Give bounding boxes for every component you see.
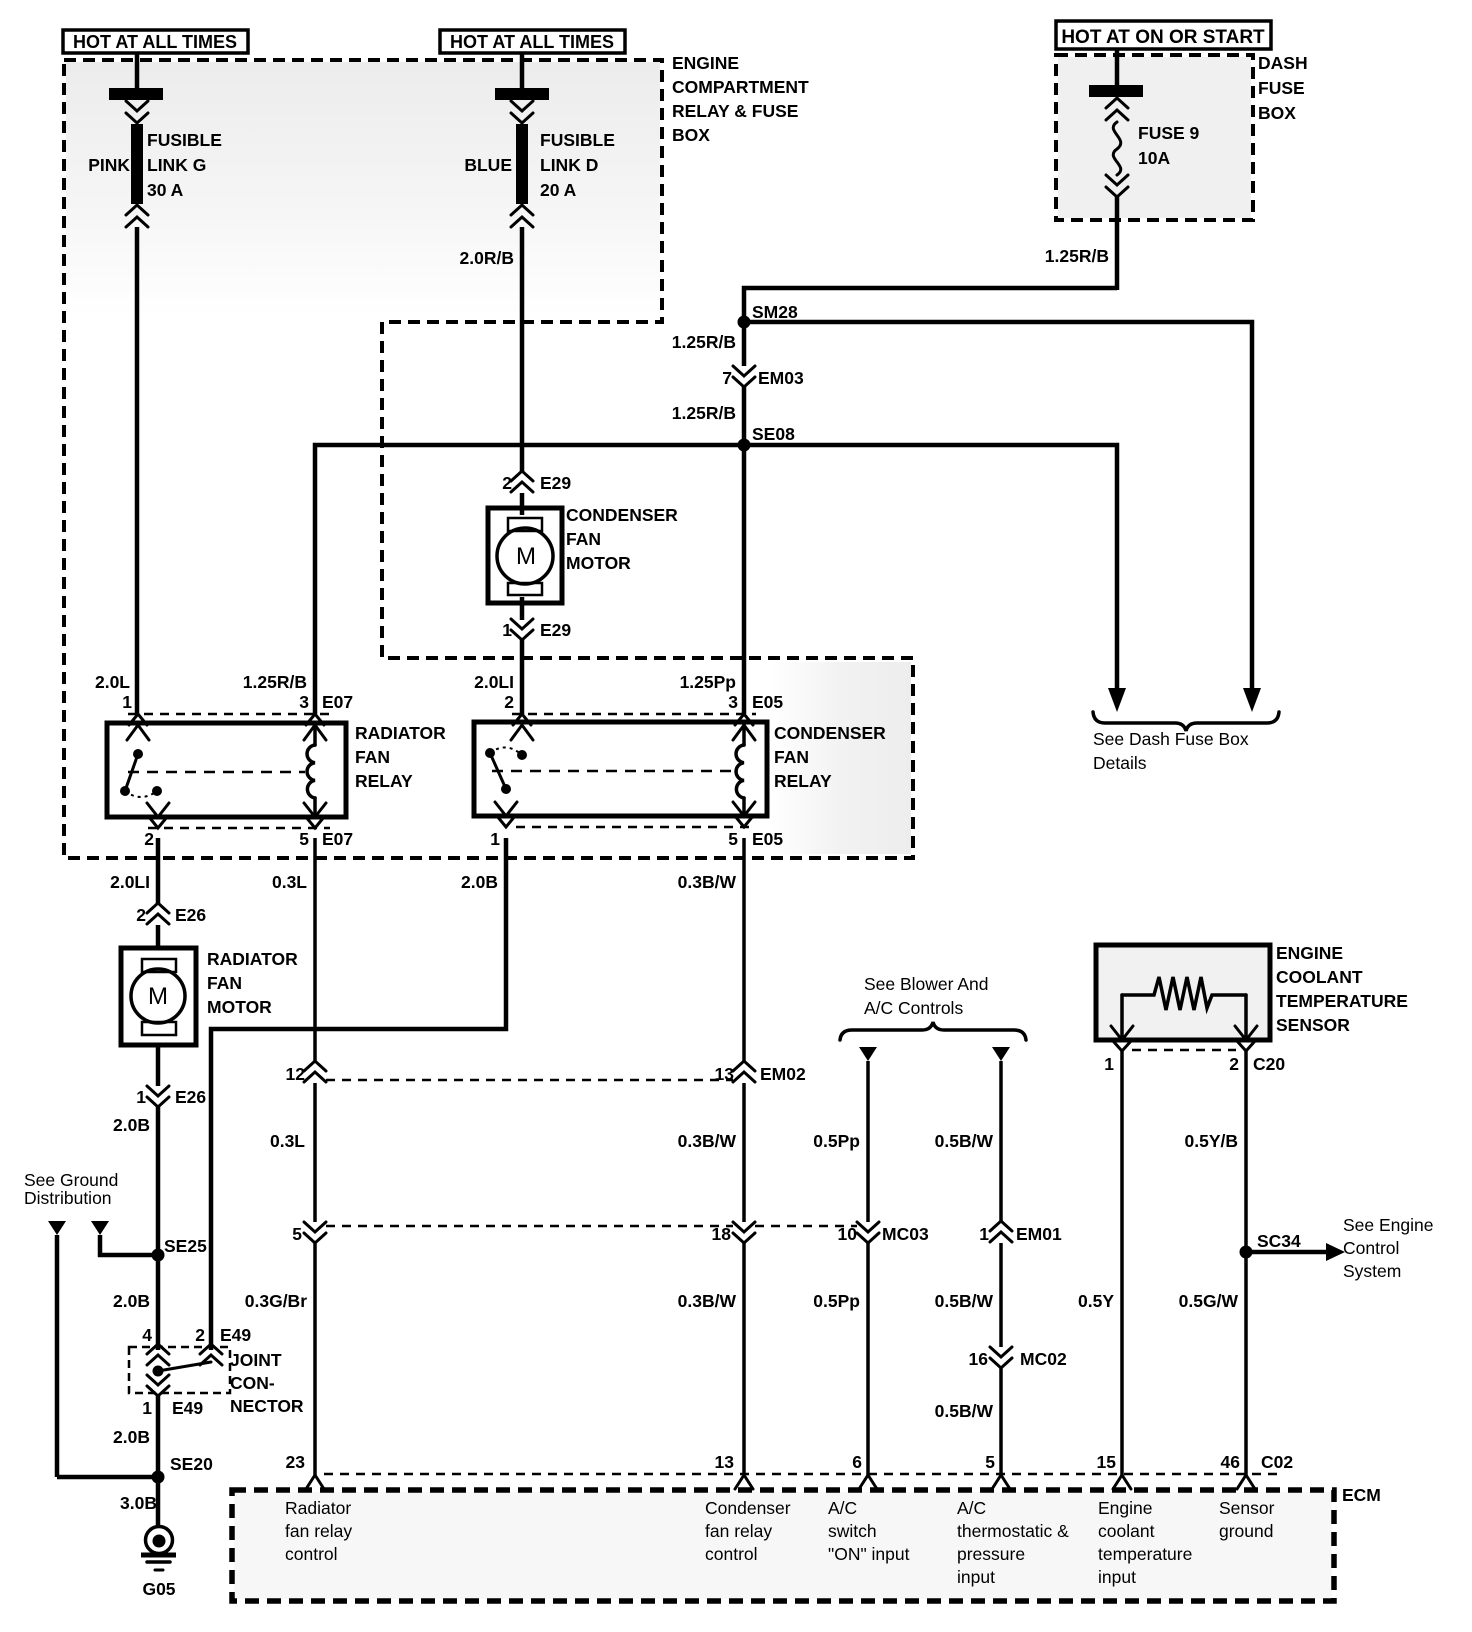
svg-text:A/C: A/C xyxy=(957,1498,986,1518)
wire connector 12 to connector 5 xyxy=(313,1083,317,1222)
svg-text:ENGINE: ENGINE xyxy=(1276,943,1343,963)
svg-text:M: M xyxy=(148,983,168,1010)
wire EM01 to connector MC02 xyxy=(999,1243,1003,1347)
node SE25 label xyxy=(164,1236,207,1256)
wire MC02 to ECM pin 5 xyxy=(999,1368,1003,1475)
wire SM28 down to connector EM03 xyxy=(742,322,747,366)
connector E05 dashed line (top) xyxy=(512,713,756,716)
wire SE08 right arm to dash-fuse-box-details arrow xyxy=(744,445,1117,690)
svg-text:10A: 10A xyxy=(1138,148,1170,168)
svg-text:2.0B: 2.0B xyxy=(113,1291,150,1311)
wire SE08 down to condenser fan relay pin 3 xyxy=(742,445,747,714)
svg-text:MOTOR: MOTOR xyxy=(566,553,631,573)
engine compartment relay and fuse box label xyxy=(672,53,809,145)
svg-text:0.5Y: 0.5Y xyxy=(1078,1291,1114,1311)
connector EM01 pin 1 xyxy=(979,1221,1062,1244)
connector EM02 pin 13 xyxy=(715,1061,806,1084)
connector E26 pin 2 xyxy=(136,903,206,925)
wire EM03 to node SE08 xyxy=(742,387,747,445)
ECM box (dashed outline) xyxy=(232,1490,1334,1601)
brace for see dash fuse box details xyxy=(1093,712,1279,731)
svg-text:1: 1 xyxy=(142,1398,152,1418)
svg-text:COOLANT: COOLANT xyxy=(1276,967,1363,987)
wire ground distribution left arm to SE20 xyxy=(55,1235,60,1477)
wire fuse 9 to corner xyxy=(1115,197,1120,290)
ECM input label radiator fan relay control xyxy=(285,1498,352,1564)
ground distribution arrow (right) xyxy=(91,1221,109,1235)
svg-text:3.0B: 3.0B xyxy=(120,1493,157,1513)
wire SE08 left arm to radiator fan relay pin 3 xyxy=(315,445,744,714)
ECM pin 13 xyxy=(715,1452,753,1489)
ECM pin 15 xyxy=(1097,1452,1131,1489)
condenser fan relay pin 5 xyxy=(728,802,783,849)
node SC34 junction xyxy=(1240,1246,1253,1259)
wire label 0.5B/W (to EM01) xyxy=(935,1131,994,1151)
svg-text:12: 12 xyxy=(286,1064,306,1084)
A/C switch feed arrow xyxy=(859,1047,877,1061)
svg-text:TEMPERATURE: TEMPERATURE xyxy=(1276,991,1408,1011)
svg-text:See Dash Fuse Box: See Dash Fuse Box xyxy=(1093,729,1249,749)
engine compartment relay and fuse box (dashed outline) xyxy=(64,60,913,858)
ground distribution arrow (left) xyxy=(48,1221,66,1235)
wire color label PINK xyxy=(88,155,130,175)
wire label 1.25R/B (SM28 to EM03) xyxy=(672,332,736,352)
svg-text:2: 2 xyxy=(195,1325,205,1345)
node SE08 junction xyxy=(738,439,751,452)
wire E26 pin 1 to node SE25 xyxy=(156,1107,161,1255)
svg-text:A/C: A/C xyxy=(828,1498,857,1518)
connector dashed link (18 to 10) xyxy=(755,1225,857,1228)
svg-text:2: 2 xyxy=(144,829,154,849)
svg-text:SE25: SE25 xyxy=(164,1236,207,1256)
wire fusible link G to radiator fan relay pin 1 xyxy=(135,227,140,714)
svg-text:FAN: FAN xyxy=(207,973,242,993)
radiator fan relay pin 5 xyxy=(299,803,353,849)
svg-text:input: input xyxy=(957,1567,995,1587)
svg-text:5: 5 xyxy=(299,829,309,849)
wire from HOT AT ALL TIMES (left) to fusible link G xyxy=(135,53,140,89)
joint connector E49 box xyxy=(129,1347,230,1393)
svg-text:SM28: SM28 xyxy=(752,302,798,322)
svg-text:ENGINE: ENGINE xyxy=(672,53,739,73)
svg-text:0.3B/W: 0.3B/W xyxy=(678,872,737,892)
radiator fan relay pin 3 xyxy=(299,692,353,740)
fusible link G value label xyxy=(147,130,222,200)
svg-text:SE20: SE20 xyxy=(170,1454,213,1474)
svg-text:4: 4 xyxy=(142,1325,152,1345)
svg-text:HOT AT ALL TIMES: HOT AT ALL TIMES xyxy=(73,32,237,52)
svg-text:2.0R/B: 2.0R/B xyxy=(460,248,514,268)
svg-text:Distribution: Distribution xyxy=(24,1188,112,1208)
svg-text:1: 1 xyxy=(136,1087,146,1107)
svg-text:E07: E07 xyxy=(322,829,353,849)
svg-text:RADIATOR: RADIATOR xyxy=(355,723,446,743)
power label HOT AT ALL TIMES (left) xyxy=(63,30,248,53)
wire label 1.25R/B (fuse 9 output) xyxy=(1045,246,1109,266)
wire EM02 to connector 18 xyxy=(742,1083,746,1222)
svg-text:control: control xyxy=(285,1544,338,1564)
svg-text:20 A: 20 A xyxy=(540,180,577,200)
svg-text:G05: G05 xyxy=(142,1579,175,1599)
svg-text:LINK G: LINK G xyxy=(147,155,206,175)
svg-text:2: 2 xyxy=(502,473,512,493)
node SM28 label xyxy=(752,302,798,322)
connector dashed link (5 to 18) xyxy=(326,1225,733,1228)
relay K1 internal dashed link xyxy=(128,771,305,774)
svg-text:0.3L: 0.3L xyxy=(272,872,307,892)
svg-text:5: 5 xyxy=(985,1452,995,1472)
svg-text:1.25R/B: 1.25R/B xyxy=(672,332,736,352)
wire sensor pin 1 to ECM pin 15 xyxy=(1120,1051,1124,1475)
svg-text:1: 1 xyxy=(490,829,500,849)
wire E49 pin 1 to node SE20 xyxy=(156,1396,161,1477)
svg-text:3: 3 xyxy=(728,692,738,712)
svg-text:2.0B: 2.0B xyxy=(113,1427,150,1447)
wire fuse output horizontal run to node SM28 xyxy=(744,288,1117,322)
svg-text:E29: E29 xyxy=(540,473,571,493)
svg-text:C20: C20 xyxy=(1253,1054,1285,1074)
connector E29 pin 2 xyxy=(502,471,571,493)
wire from HOT AT ON OR START to fuse 9 xyxy=(1115,49,1120,86)
svg-text:2.0LI: 2.0LI xyxy=(110,872,150,892)
wire E29 to condenser fan motor xyxy=(520,493,525,515)
wire SE20 left arm xyxy=(57,1475,158,1480)
wire label 0.3G/Br xyxy=(245,1291,307,1311)
svg-text:Sensor: Sensor xyxy=(1219,1498,1275,1518)
svg-text:"ON" input: "ON" input xyxy=(828,1544,910,1564)
ground G05 symbol xyxy=(141,1527,176,1571)
node SE25 junction xyxy=(152,1249,165,1262)
wire condenser relay pin 5 down to connector EM02 xyxy=(742,838,746,1062)
relay K2 switch xyxy=(485,747,527,794)
svg-text:FUSE 9: FUSE 9 xyxy=(1138,123,1200,143)
engine coolant temperature sensor resistor xyxy=(1122,977,1246,1040)
fusible link G symbol xyxy=(109,88,163,227)
ECM connector dashed line C02 xyxy=(324,1473,1277,1476)
svg-text:13: 13 xyxy=(715,1064,735,1084)
svg-text:C02: C02 xyxy=(1261,1452,1293,1472)
connector C02 label xyxy=(1261,1452,1293,1472)
wire color label BLUE xyxy=(464,155,512,175)
svg-text:0.5Y/B: 0.5Y/B xyxy=(1185,1131,1239,1151)
svg-text:EM01: EM01 xyxy=(1016,1224,1062,1244)
svg-text:15: 15 xyxy=(1097,1452,1117,1472)
node SM28 junction xyxy=(738,316,751,329)
svg-text:ground: ground xyxy=(1219,1521,1274,1541)
note see engine control system xyxy=(1343,1215,1434,1281)
svg-text:7: 7 xyxy=(722,368,732,388)
svg-text:A/C Controls: A/C Controls xyxy=(864,998,963,1018)
svg-text:0.5B/W: 0.5B/W xyxy=(935,1291,994,1311)
svg-text:HOT AT ON OR START: HOT AT ON OR START xyxy=(1061,27,1265,48)
connector E26 pin 1 xyxy=(136,1086,206,1107)
svg-text:E49: E49 xyxy=(172,1398,203,1418)
power label HOT AT ALL TIMES (center) xyxy=(440,30,625,53)
fusible link D symbol xyxy=(495,88,549,227)
svg-text:FAN: FAN xyxy=(355,747,390,767)
svg-text:1.25R/B: 1.25R/B xyxy=(1045,246,1109,266)
svg-text:1: 1 xyxy=(979,1224,989,1244)
svg-text:1: 1 xyxy=(1104,1054,1114,1074)
svg-text:6: 6 xyxy=(852,1452,862,1472)
svg-text:RELAY: RELAY xyxy=(774,771,832,791)
svg-text:Details: Details xyxy=(1093,753,1147,773)
ECM input label condenser fan relay control xyxy=(705,1498,791,1564)
connector EM03 pin 7 xyxy=(722,366,804,388)
svg-text:2: 2 xyxy=(1229,1054,1239,1074)
svg-text:E07: E07 xyxy=(322,692,353,712)
svg-text:1: 1 xyxy=(502,620,512,640)
wire label 0.5B/W (MC02 to ECM) xyxy=(935,1401,994,1421)
condenser fan relay pin 1 xyxy=(490,802,517,849)
svg-text:23: 23 xyxy=(286,1452,306,1472)
wire A/C switch feed to connector MC03 xyxy=(866,1061,870,1222)
condenser fan relay label xyxy=(774,723,886,791)
wire label 2.0B (condenser relay pin 1) xyxy=(461,872,498,892)
svg-text:input: input xyxy=(1098,1567,1136,1587)
in-line connector pin 5 xyxy=(292,1222,326,1244)
wire label 1.25R/B (EM03 to SE08) xyxy=(672,403,736,423)
wire from HOT AT ALL TIMES (center) to fusible link D xyxy=(520,53,525,89)
svg-text:BOX: BOX xyxy=(1258,103,1296,123)
power label HOT AT ON OR START xyxy=(1056,21,1271,49)
fuse 9 value label xyxy=(1138,123,1200,168)
svg-text:BOX: BOX xyxy=(672,125,710,145)
svg-text:0.3B/W: 0.3B/W xyxy=(678,1131,737,1151)
svg-text:2.0L: 2.0L xyxy=(95,672,130,692)
wire radiator fan motor to connector E26 pin 1 xyxy=(156,1045,161,1086)
svg-text:E29: E29 xyxy=(540,620,571,640)
wire condenser relay pin 1 to joint connector E49 pin 2 xyxy=(211,838,506,1350)
radiator fan relay pin 1 xyxy=(122,692,149,740)
svg-text:0.5B/W: 0.5B/W xyxy=(935,1401,994,1421)
svg-text:2.0B: 2.0B xyxy=(461,872,498,892)
joint connector E49 pin 1 xyxy=(142,1375,203,1418)
wire label 2.0LI (radiator relay pin 2) xyxy=(110,872,150,892)
engine coolant temperature sensor box xyxy=(1096,945,1270,1040)
radiator fan motor M2 xyxy=(121,948,196,1045)
svg-text:FAN: FAN xyxy=(566,529,601,549)
svg-text:thermostatic &: thermostatic & xyxy=(957,1521,1069,1541)
svg-text:LINK D: LINK D xyxy=(540,155,598,175)
svg-text:FUSE: FUSE xyxy=(1258,78,1305,98)
wire label 0.3L (radiator relay pin 5) xyxy=(272,872,307,892)
wire SC34 to engine control system xyxy=(1246,1243,1345,1261)
svg-text:fan relay: fan relay xyxy=(705,1521,772,1541)
arrowhead to dash fuse box details (left) xyxy=(1108,688,1126,712)
wire label 2.0L xyxy=(95,672,130,692)
svg-text:EM03: EM03 xyxy=(758,368,804,388)
node SE08 label xyxy=(752,424,795,444)
brace for see blower and A/C controls xyxy=(840,1022,1026,1040)
svg-text:fan relay: fan relay xyxy=(285,1521,352,1541)
dash fuse box label xyxy=(1258,53,1308,123)
svg-text:RELAY: RELAY xyxy=(355,771,413,791)
svg-text:System: System xyxy=(1343,1261,1401,1281)
wire ground distribution right arm to SE25 xyxy=(100,1235,158,1255)
relay K1 radiator fan relay box xyxy=(107,723,346,817)
svg-text:46: 46 xyxy=(1221,1452,1241,1472)
wire SC34 to ECM pin 46 xyxy=(1244,1252,1248,1475)
sensor pin 2 terminal xyxy=(1229,1026,1257,1074)
svg-text:0.5Pp: 0.5Pp xyxy=(813,1131,860,1151)
svg-text:COMPARTMENT: COMPARTMENT xyxy=(672,77,809,97)
arrowhead to dash fuse box details (right) xyxy=(1243,688,1261,712)
svg-text:E05: E05 xyxy=(752,692,783,712)
svg-text:0.3G/Br: 0.3G/Br xyxy=(245,1291,307,1311)
ECM label xyxy=(1342,1485,1381,1505)
condenser fan motor M1 xyxy=(488,508,562,603)
ECM pin 23 xyxy=(286,1452,324,1489)
radiator fan motor label xyxy=(207,949,298,1017)
wire MC03 to ECM pin 6 xyxy=(866,1243,870,1475)
svg-text:1: 1 xyxy=(122,692,132,712)
node SE20 junction xyxy=(152,1471,165,1484)
node SE20 label xyxy=(170,1454,213,1474)
svg-text:EM02: EM02 xyxy=(760,1064,806,1084)
svg-text:0.5B/W: 0.5B/W xyxy=(935,1131,994,1151)
svg-text:0.3B/W: 0.3B/W xyxy=(678,1291,737,1311)
connector MC03 pin 10 xyxy=(838,1222,929,1244)
wire E29 pin 1 to condenser fan relay pin 2 xyxy=(520,640,525,714)
svg-text:5: 5 xyxy=(728,829,738,849)
svg-text:3: 3 xyxy=(299,692,309,712)
wire label 2.0B (motor to SE25) xyxy=(113,1115,150,1135)
joint connector E49 pin 2 xyxy=(200,1344,222,1365)
wire condenser fan motor to connector E29 pin 1 xyxy=(520,597,525,620)
wire radiator relay pin 5 down to connector 12 xyxy=(313,838,317,1062)
connector C20 label xyxy=(1253,1054,1285,1074)
wire label 0.3B/W (condenser relay pin 5) xyxy=(678,872,737,892)
wire label 0.3B/W (to connector 18) xyxy=(678,1131,737,1151)
svg-text:E05: E05 xyxy=(752,829,783,849)
wire label 0.3L (to connector 5) xyxy=(270,1131,305,1151)
svg-text:DASH: DASH xyxy=(1258,53,1308,73)
node SC34 label xyxy=(1257,1231,1301,1251)
svg-text:1.25Pp: 1.25Pp xyxy=(680,672,736,692)
svg-text:control: control xyxy=(705,1544,758,1564)
svg-text:MC03: MC03 xyxy=(882,1224,929,1244)
svg-text:5: 5 xyxy=(292,1224,302,1244)
svg-text:FUSIBLE: FUSIBLE xyxy=(147,130,222,150)
svg-text:CONDENSER: CONDENSER xyxy=(566,505,678,525)
ECM pin 5 xyxy=(985,1452,1010,1489)
svg-text:SC34: SC34 xyxy=(1257,1231,1301,1251)
in-line connector pin 18 xyxy=(712,1222,755,1244)
svg-text:BLUE: BLUE xyxy=(464,155,512,175)
svg-text:MC02: MC02 xyxy=(1020,1349,1067,1369)
note see ground distribution xyxy=(24,1170,118,1208)
svg-text:SE08: SE08 xyxy=(752,424,795,444)
joint connector E49 internal node xyxy=(153,1362,212,1377)
svg-text:13: 13 xyxy=(715,1452,735,1472)
wire label 0.5Y/B xyxy=(1185,1131,1239,1151)
sensor pin 1 terminal xyxy=(1104,1026,1133,1074)
svg-text:FAN: FAN xyxy=(774,747,809,767)
ECM input label A/C thermostatic and pressure input xyxy=(957,1498,1069,1587)
svg-text:switch: switch xyxy=(828,1521,877,1541)
wire sensor pin 2 to node SC34 xyxy=(1244,1051,1248,1252)
svg-text:16: 16 xyxy=(969,1349,989,1369)
wire connector 18 to ECM pin 13 xyxy=(742,1243,746,1475)
connector E29 pin 1 xyxy=(502,619,571,640)
engine coolant temperature sensor label xyxy=(1276,943,1408,1035)
svg-text:FUSIBLE: FUSIBLE xyxy=(540,130,615,150)
svg-text:E26: E26 xyxy=(175,1087,206,1107)
ECM input label A/C switch ON input xyxy=(828,1498,910,1564)
connector E07 dashed line (top) xyxy=(128,713,330,716)
svg-text:MOTOR: MOTOR xyxy=(207,997,272,1017)
svg-text:18: 18 xyxy=(712,1224,732,1244)
svg-text:RADIATOR: RADIATOR xyxy=(207,949,298,969)
svg-text:ECM: ECM xyxy=(1342,1485,1381,1505)
svg-text:0.5G/W: 0.5G/W xyxy=(1179,1291,1239,1311)
svg-text:2: 2 xyxy=(504,692,514,712)
ECM pin 46 xyxy=(1221,1452,1255,1489)
wire SM28 right arm to dash-fuse-box-details arrow xyxy=(744,322,1252,690)
fuse 9 symbol xyxy=(1089,85,1143,197)
svg-text:PINK: PINK xyxy=(88,155,130,175)
wire label 2.0LI (to condenser relay pin 2) xyxy=(474,672,514,692)
svg-text:JOINT: JOINT xyxy=(230,1350,282,1370)
connector EM02 dashed link xyxy=(326,1079,733,1082)
in-line connector pin 12 xyxy=(286,1061,326,1084)
svg-text:2.0LI: 2.0LI xyxy=(474,672,514,692)
svg-text:CONDENSER: CONDENSER xyxy=(774,723,886,743)
ECM input label engine coolant temperature input xyxy=(1098,1498,1192,1587)
wire A/C thermostatic feed to connector EM01 xyxy=(999,1061,1003,1222)
ECM pin 6 xyxy=(852,1452,877,1489)
ECM input label sensor ground xyxy=(1219,1498,1275,1541)
svg-text:See Ground: See Ground xyxy=(24,1170,118,1190)
svg-text:30 A: 30 A xyxy=(147,180,184,200)
wire label 1.25R/B (to radiator relay pin 3) xyxy=(243,672,307,692)
svg-text:Control: Control xyxy=(1343,1238,1399,1258)
condenser fan motor label xyxy=(566,505,678,573)
radiator fan relay label xyxy=(355,723,446,791)
svg-text:pressure: pressure xyxy=(957,1544,1025,1564)
svg-text:Condenser: Condenser xyxy=(705,1498,791,1518)
wire label 0.5B/W (EM01 to MC02) xyxy=(935,1291,994,1311)
dash fuse box (dashed outline) xyxy=(1056,55,1253,220)
svg-text:E26: E26 xyxy=(175,905,206,925)
wire label 0.5Pp (MC03 to ECM) xyxy=(813,1291,860,1311)
svg-text:10: 10 xyxy=(838,1224,858,1244)
wire label 3.0B xyxy=(120,1493,157,1513)
relay K1 switch xyxy=(120,749,162,797)
joint connector label xyxy=(230,1350,304,1416)
svg-text:2: 2 xyxy=(136,905,146,925)
connector MC02 pin 16 xyxy=(969,1347,1067,1369)
joint connector E49 pin 4 xyxy=(147,1344,169,1365)
wire label 0.5Y xyxy=(1078,1291,1114,1311)
joint connector E49 labels xyxy=(142,1325,251,1345)
svg-text:0.5Pp: 0.5Pp xyxy=(813,1291,860,1311)
wire radiator relay pin 2 to connector E26 xyxy=(156,838,161,904)
wire label 2.0B (E49 to SE20) xyxy=(113,1427,150,1447)
svg-text:Radiator: Radiator xyxy=(285,1498,351,1518)
A/C thermostatic feed arrow xyxy=(992,1047,1010,1061)
wire label 1.25Pp xyxy=(680,672,736,692)
svg-text:RELAY & FUSE: RELAY & FUSE xyxy=(672,101,798,121)
svg-text:E49: E49 xyxy=(220,1325,251,1345)
wire SE25 to joint connector E49 pin 4 xyxy=(156,1255,161,1350)
svg-text:Engine: Engine xyxy=(1098,1498,1153,1518)
svg-text:CON-: CON- xyxy=(230,1373,275,1393)
connector E07 dashed line (bottom) xyxy=(148,827,330,830)
svg-text:1.25R/B: 1.25R/B xyxy=(672,403,736,423)
svg-text:1.25R/B: 1.25R/B xyxy=(243,672,307,692)
